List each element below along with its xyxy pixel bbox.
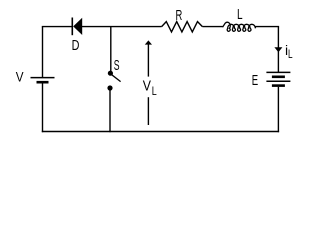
V_L arrow head (145, 40, 152, 44)
switch branch bottom wire (109, 90, 111, 132)
switch branch top wire (110, 27, 112, 71)
svg-text:L: L (237, 6, 243, 23)
diode D (72, 18, 82, 36)
svg-text:E: E (252, 72, 258, 89)
battery E (266, 72, 290, 85)
wire right bottom (battery E to bottom rail) (277, 87, 279, 132)
inductor L coil (223, 22, 256, 31)
switch S blade (111, 74, 121, 81)
wire top rail right (inductor to corner) (255, 26, 279, 28)
svg-text:L: L (152, 84, 157, 98)
svg-text:R: R (176, 7, 183, 24)
arrow i_L (274, 47, 282, 52)
wire left top (top rail to battery V) (42, 27, 44, 78)
wire top rail (resistor to inductor) (202, 26, 223, 28)
V_L arrow lower shaft (147, 97, 149, 125)
battery V (31, 78, 55, 83)
svg-text:V: V (143, 77, 151, 94)
svg-text:S: S (114, 57, 120, 74)
bottom rail (42, 131, 279, 133)
switch S bottom contact dot (107, 85, 112, 90)
wire right drop (corner to battery E) (277, 27, 279, 73)
V_L arrow upper shaft (147, 44, 149, 77)
switch S top contact dot (108, 71, 113, 76)
svg-text:V: V (16, 69, 24, 85)
wire left bottom (battery V to bottom rail) (42, 83, 44, 132)
svg-text:L: L (288, 47, 293, 61)
wire top rail left (V top to diode) (42, 26, 72, 28)
wire top rail mid (diode to resistor) (82, 26, 162, 28)
resistor R (162, 22, 203, 32)
svg-text:D: D (72, 37, 80, 54)
